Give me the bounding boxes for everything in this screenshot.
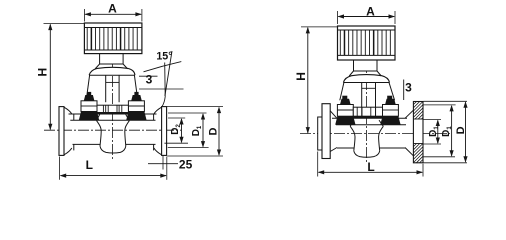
extension lines D dims left valve	[167, 106, 223, 108]
svg-text:A: A	[108, 2, 117, 16]
flange section hatch bottom (right valve)	[413, 144, 416, 147]
extension line lower (3 dim)	[139, 88, 184, 90]
stem neck right valve	[354, 60, 378, 72]
svg-text:3: 3	[405, 80, 412, 94]
gland nut left (left valve)	[84, 95, 95, 101]
body bottom bulge right valve	[354, 151, 380, 157]
hub seam left cup	[73, 114, 75, 120]
svg-text:H: H	[36, 68, 50, 77]
centerline vertical right valve	[365, 28, 367, 163]
flange right end (right valve)	[413, 102, 423, 163]
svg-text:L: L	[367, 160, 374, 174]
dimension D2 right valve	[437, 121, 439, 144]
dimension D1 right valve	[451, 106, 453, 156]
hub seam right cup	[153, 114, 155, 120]
gland nut right (left valve)	[131, 95, 142, 101]
body waist right side (left valve)	[125, 121, 130, 147]
dimension L left valve	[61, 175, 167, 177]
barrel bottom line left valve	[73, 143, 101, 145]
body top line left valve	[69, 113, 157, 115]
packing gland left (left valve)	[81, 101, 97, 112]
svg-text:15°: 15°	[156, 51, 172, 63]
handwheel right valve	[338, 26, 396, 60]
seat angle line tilted (15 deg detail)	[165, 51, 172, 96]
body bottom bulge left valve	[100, 146, 126, 153]
svg-text:H: H	[294, 72, 308, 81]
gland nut right (right valve)	[385, 99, 396, 105]
bonnet boss trapezoid left valve	[97, 114, 100, 120]
flange hub right (right valve)	[405, 110, 413, 118]
barrel top line left valve	[70, 119, 155, 121]
dimension A left valve	[85, 13, 141, 15]
extension line upper (3 dim)	[139, 75, 158, 77]
dimension D right valve	[465, 102, 467, 162]
bonnet legs left valve	[87, 75, 90, 95]
packing gland left (right valve)	[337, 105, 353, 117]
bonnet legs right valve	[340, 83, 344, 101]
dimension L right valve	[319, 171, 423, 173]
svg-text:L: L	[86, 158, 93, 172]
centerline horizontal right valve	[300, 133, 450, 135]
body top line right valve	[332, 117, 407, 119]
flange bore lines right (right valve)	[413, 118, 423, 120]
handwheel left valve	[84, 23, 141, 54]
dimension A right valve	[338, 16, 394, 18]
clamp ferrule right end (left valve)	[162, 107, 167, 156]
svg-text:D: D	[455, 126, 467, 134]
packing gland right (right valve)	[383, 105, 399, 117]
yoke bar bottom band right valve	[353, 115, 382, 118]
dimension 25 left valve	[148, 163, 178, 165]
yoke bar right valve	[353, 107, 382, 116]
dimension H right valve	[307, 28, 309, 133]
bonnet dome left valve	[89, 67, 135, 75]
bonnet dome right valve	[343, 75, 389, 83]
stem neck left valve	[100, 53, 124, 64]
barrel top line right valve	[336, 124, 406, 126]
neck-to-dome flare left valve	[95, 64, 100, 69]
neck-to-dome flare right valve	[349, 71, 353, 76]
packing gland right (left valve)	[128, 101, 144, 112]
svg-text:3: 3	[146, 72, 153, 86]
body waist left side (right valve)	[350, 126, 355, 151]
dimension D2 left valve	[181, 119, 183, 142]
barrel bottom line right valve	[337, 147, 354, 149]
yoke bar left valve	[97, 105, 128, 112]
seat angle line vertical (15 deg detail)	[162, 63, 165, 107]
dimension D1 left valve	[202, 114, 204, 147]
dimension 3 right valve	[403, 80, 405, 101]
centerline horizontal left valve	[44, 129, 181, 131]
centerline vertical left valve	[112, 25, 114, 159]
clamp ferrule left end (left valve)	[59, 107, 64, 156]
yoke bar bottom band left valve	[97, 112, 128, 114]
flange left end (right valve)	[318, 117, 322, 150]
svg-text:A: A	[366, 5, 375, 19]
angle arc 15 deg	[144, 62, 182, 72]
body waist left side (left valve)	[97, 121, 102, 147]
svg-text:25: 25	[179, 158, 193, 172]
valve stem right valve	[361, 83, 363, 108]
extension lines D dims right valve	[424, 100, 468, 102]
bonnet boss trapezoid right valve	[350, 120, 353, 126]
svg-text:D: D	[208, 127, 220, 135]
valve stem left valve	[105, 75, 107, 102]
gland nut left (right valve)	[340, 99, 351, 105]
body waist right side (right valve)	[379, 126, 384, 151]
dimension H left valve	[49, 24, 51, 129]
flange section hatch top (right valve)	[413, 102, 416, 105]
flange hub left (right valve)	[330, 111, 337, 119]
dimension D left valve	[218, 108, 220, 155]
